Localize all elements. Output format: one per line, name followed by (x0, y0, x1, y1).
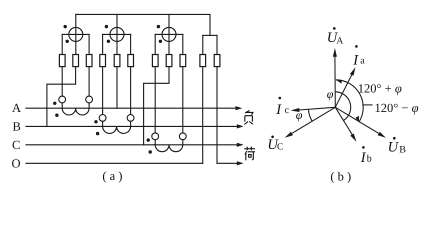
wire: terminal7 to CT-C left (154, 67, 156, 133)
terminal 6 (128, 55, 134, 67)
wire: terminal5 voltage element2 to line A (116, 67, 118, 109)
wire: drop to terminal 11 (216, 35, 218, 54)
arc 120 deg: outer arc UA to UB with arrows (336, 78, 363, 122)
svg-text:φ: φ (327, 87, 334, 101)
terminal 3 (86, 55, 92, 67)
svg-text:A: A (12, 101, 21, 115)
terminal 10 (200, 55, 206, 67)
node line A (26, 107, 236, 109)
svg-text:B: B (399, 145, 406, 156)
wire: terminal1 to CT-A left (61, 67, 63, 97)
meter element W3 (155, 14, 183, 54)
terminal 8 (166, 55, 172, 67)
vector Ia (335, 67, 355, 107)
label UB (388, 137, 407, 156)
arc phi2 between Ic and UC (308, 109, 312, 121)
label 负 (load char 1) (244, 111, 253, 125)
svg-text:c: c (285, 105, 290, 116)
svg-text:(a): (a) (102, 169, 125, 183)
meter element W2 (103, 14, 131, 54)
svg-text:(b): (b) (330, 170, 354, 184)
wire: terminal4 to CT-B left (102, 67, 104, 115)
arrow line C (237, 143, 244, 147)
svg-text:B: B (13, 120, 21, 134)
vector UB (335, 107, 386, 137)
arrow line O (237, 161, 244, 165)
vector Ib (335, 107, 356, 141)
node line O left (26, 162, 203, 164)
svg-text:U: U (388, 140, 400, 156)
wire: terminal9 to CT-C right (182, 67, 184, 133)
leader line for 120-phi (362, 104, 372, 106)
wire: terminal11 down to O outgoing (216, 67, 218, 164)
svg-text:O: O (12, 157, 21, 171)
terminal 7 (152, 55, 158, 67)
wire: line O outgoing (217, 162, 238, 164)
vector UA (333, 48, 337, 107)
label Ia (352, 45, 365, 68)
svg-text:a: a (360, 56, 365, 67)
current transformer CT1 on line A (53, 96, 92, 117)
wire: terminal8 voltage element3 to line C (144, 67, 169, 145)
label Ib (360, 146, 372, 166)
terminal 1 (59, 55, 65, 67)
node line C (26, 144, 238, 146)
terminal 9 (180, 55, 186, 67)
wire: terminal6 to CT-B right (130, 67, 132, 115)
label UC (267, 136, 283, 153)
current transformer CT3 on line C (147, 133, 187, 154)
svg-text:120° − φ: 120° − φ (375, 101, 419, 115)
svg-text:120° + φ: 120° + φ (358, 81, 402, 95)
wire: terminal2 voltage element1 to line B (47, 67, 76, 127)
svg-text:A: A (336, 36, 343, 46)
terminal 2 (73, 55, 79, 67)
svg-text:C: C (12, 138, 20, 152)
label 荷 (load char 2) (244, 147, 255, 161)
meter element W1 (62, 14, 89, 54)
current transformer CT2 on line B (94, 115, 134, 136)
label Ic (275, 97, 289, 118)
phasor diagram (285, 48, 386, 142)
wire: top voltage bus (76, 14, 210, 35)
arc inner: UA to Ib (336, 92, 351, 121)
svg-text:φ: φ (296, 108, 303, 122)
wire: right terminal pair bar (203, 34, 217, 36)
arrow line B (237, 124, 244, 128)
vector Ic (291, 107, 336, 112)
terminal 5 (114, 55, 120, 67)
wire: terminal3 to CT-A right (88, 67, 90, 97)
svg-text:C: C (277, 142, 283, 152)
label UA (327, 27, 344, 46)
vector UC (285, 107, 336, 137)
terminal 11 (214, 55, 220, 67)
svg-text:b: b (367, 154, 372, 165)
terminal 4 (100, 55, 106, 67)
arrow line A (236, 106, 243, 110)
wire: terminal10 to line O (202, 67, 204, 164)
node line B (26, 125, 238, 127)
wire: drop to terminal 10 (202, 35, 204, 54)
